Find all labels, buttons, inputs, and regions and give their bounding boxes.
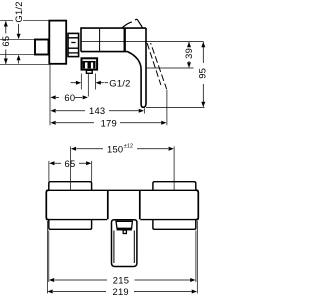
svg-text:143: 143	[89, 105, 105, 116]
body inner vertical line 1	[99, 28, 101, 51]
extension line below plate (wall plane)	[49, 64, 51, 125]
handle lever (front view)	[112, 220, 137, 267]
union nut	[68, 33, 79, 56]
extension line for 95 bottom (handle tip)	[146, 107, 205, 109]
handle side contour lines	[114, 231, 134, 264]
ext line esc2 center	[173, 146, 175, 190]
dimension 215	[55, 279, 191, 281]
dimension 60	[56, 96, 82, 98]
outlet threaded stub G1/2	[86, 70, 92, 73]
extension line: wall square bottom	[0, 54, 35, 56]
outlet inner top band	[83, 61, 96, 63]
bar top edge	[46, 189, 198, 191]
extension line: wall square top	[0, 38, 35, 40]
G1/2 leader arrows at wall square	[18, 24, 20, 34]
right escutcheon top band	[153, 182, 196, 191]
svg-text:65: 65	[0, 36, 11, 47]
dimension 143	[56, 110, 139, 112]
handle open position (dashed) line 2	[151, 43, 167, 89]
wall connection square G1/2 nipple	[35, 40, 49, 55]
extension line 143 (handle edge)	[143, 108, 145, 113]
svg-text:219: 219	[112, 286, 128, 297]
dimension 95 (vertical, far right)	[202, 42, 204, 107]
union nut wrench dash	[71, 42, 75, 44]
svg-text:179: 179	[101, 117, 117, 128]
svg-text:95: 95	[197, 68, 208, 79]
left escutcheon bottom band	[49, 220, 92, 230]
svg-text:±12: ±12	[124, 143, 133, 149]
extension line: plate top to left edge	[0, 20, 49, 22]
left escutcheon top band	[49, 182, 92, 191]
right escutcheon bottom band	[153, 220, 196, 230]
ext line esc1 center	[70, 146, 72, 190]
outlet G1/2 arrows	[71, 82, 76, 84]
bar bottom edge (interrupted at valve)	[46, 219, 198, 221]
valve section vertical edges	[108, 190, 140, 219]
window thick bottom	[117, 228, 132, 231]
handle lever blade (side view top)	[122, 22, 131, 28]
dimension 65 (vertical, left)	[5, 21, 7, 64]
extension line: plate bottom to left edge	[0, 63, 49, 65]
svg-text:39: 39	[183, 48, 194, 59]
ext lines bottom right	[196, 221, 197, 294]
handle escutcheon thick edge	[124, 28, 126, 52]
outlet centerline	[87, 74, 89, 97]
body bar	[46, 190, 198, 219]
outlet inner teeth	[83, 62, 85, 68]
dimension 150+12	[77, 148, 169, 150]
ext lines bottom left	[47, 221, 48, 294]
svg-text:150: 150	[107, 143, 123, 154]
dimension 219	[53, 291, 192, 293]
handle open position (dashed) line 1	[147, 43, 161, 85]
wall plate (escutcheon side view)	[49, 21, 66, 64]
dimension 39 (vertical, right)	[188, 42, 190, 67]
shower outlet nut below body	[82, 58, 98, 69]
valve body (side view)	[81, 28, 146, 51]
extension line for 39 bottom	[146, 67, 194, 69]
label G1/2 (outlet)	[105, 82, 109, 84]
outlet G1/2 callout extension lines	[81, 74, 95, 90]
svg-text:G1/2: G1/2	[109, 77, 130, 88]
svg-text:65: 65	[65, 158, 76, 169]
svg-text:215: 215	[113, 275, 129, 286]
handle window (grip recess)	[116, 221, 132, 228]
dimension 179	[56, 122, 161, 124]
svg-text:G1/2: G1/2	[13, 1, 24, 22]
extension line 179 (dashed handle tip)	[166, 90, 168, 126]
handle shaft (side view, pointing down)	[128, 28, 147, 107]
dimension 65 (bottom view)	[55, 162, 86, 164]
ext lines 65 (esc1 edges)	[49, 161, 92, 182]
svg-text:60: 60	[64, 92, 75, 103]
body centerline extended right	[81, 41, 204, 43]
window tab	[123, 230, 126, 233]
